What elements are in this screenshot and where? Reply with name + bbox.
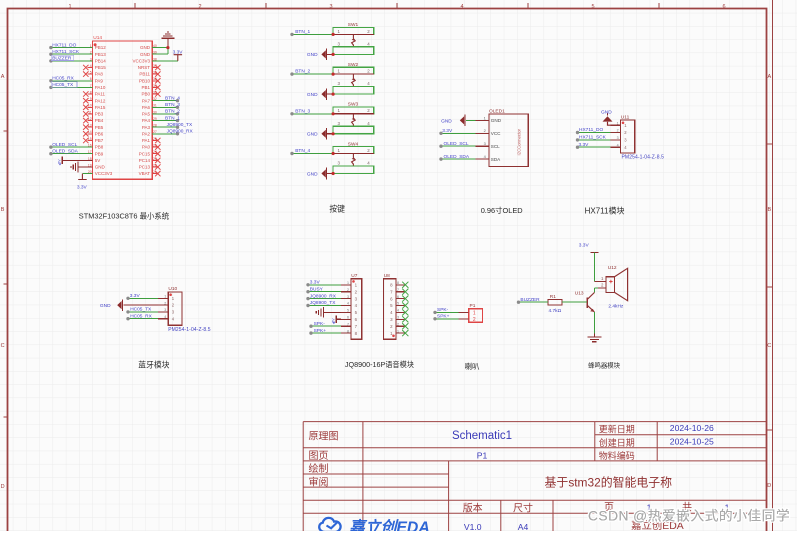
svg-text:绘制: 绘制 [309, 462, 329, 475]
svg-text:BTN_4: BTN_4 [295, 148, 310, 154]
svg-text:4: 4 [347, 302, 349, 306]
svg-text:HX711_SCK: HX711_SCK [579, 135, 607, 141]
svg-text:P1: P1 [477, 450, 488, 460]
no-connect X at U14 pin 11 (PB3) [83, 111, 92, 116]
svg-text:VCC: VCC [491, 131, 501, 136]
svg-text:GND: GND [100, 303, 111, 309]
wire net BTN_2 to SW2 pin 1 [290, 69, 334, 76]
svg-text:Schematic1: Schematic1 [452, 430, 512, 442]
switch SW2 [333, 62, 374, 94]
wire net SPK+ to P1 pin 2 [433, 314, 458, 321]
svg-text:HX711_DO: HX711_DO [579, 127, 603, 133]
title block left labels [309, 430, 339, 488]
svg-text:8: 8 [347, 329, 349, 333]
power flag 5V at U14 pin 18 [58, 157, 93, 166]
svg-text:PB13: PB13 [95, 52, 107, 57]
connector OLED1 I2CConnector [489, 108, 528, 166]
power 3.3V bar at U14 pin 20 [77, 174, 93, 191]
power flag 5V (rotated) at U7 pin 6 [331, 316, 340, 325]
no-connect X at U14 pin 5 (PA8) [83, 71, 92, 76]
svg-text:HX711_SCK: HX711_SCK [52, 49, 80, 55]
svg-text:PB15: PB15 [95, 65, 107, 70]
connector U8 (JQ8900 right) [384, 273, 397, 339]
svg-text:D: D [1, 484, 5, 490]
svg-text:JQ8900_TX: JQ8900_TX [167, 122, 193, 128]
wire net BTN_4 from U14 pin 32 [152, 95, 180, 102]
wire net BUZZER to U14 pin 3 [49, 55, 92, 62]
title block right labels [599, 424, 635, 461]
svg-text:OLED_SCL: OLED_SCL [52, 142, 77, 148]
svg-text:8: 8 [397, 281, 399, 285]
svg-text:PA5: PA5 [142, 112, 151, 117]
svg-text:HX711_DO: HX711_DO [52, 42, 76, 48]
svg-text:蜂鸣器模块: 蜂鸣器模块 [588, 360, 621, 369]
svg-text:BUSY: BUSY [310, 286, 324, 292]
svg-text:3: 3 [329, 4, 332, 10]
svg-text:VBAT: VBAT [139, 171, 151, 176]
svg-text:SDA: SDA [491, 157, 501, 162]
U11 pin stubs and numbers [611, 121, 628, 149]
wire U14 GND pins 40,39 to ground [152, 38, 169, 54]
svg-text:3.3V: 3.3V [130, 293, 141, 299]
svg-text:B: B [1, 207, 5, 213]
svg-text:U10: U10 [168, 286, 177, 292]
svg-text:4.7kΩ: 4.7kΩ [549, 308, 562, 314]
svg-text:C: C [767, 343, 771, 349]
U8 pin 8 stub + X [396, 284, 404, 286]
svg-text:OLED_SDA: OLED_SDA [52, 148, 78, 154]
U14 pin names and numbers [88, 44, 157, 176]
no-connect X at U14 pin 34 (PB1) [152, 85, 160, 90]
switch SW1 [333, 22, 374, 54]
logo 嘉立创EDA cloud icon [319, 518, 340, 532]
svg-text:PB7: PB7 [95, 138, 104, 143]
svg-text:PB14: PB14 [95, 59, 107, 64]
svg-text:U7: U7 [351, 273, 357, 279]
resistor R1 4.7kΩ [548, 294, 562, 314]
svg-text:PB5: PB5 [95, 125, 104, 130]
svg-text:5: 5 [591, 4, 594, 10]
svg-text:HC05_TX: HC05_TX [130, 307, 152, 313]
wire net BTN_4 to SW4 pin 1 [290, 148, 334, 155]
svg-text:0.96寸OLED: 0.96寸OLED [481, 206, 523, 215]
svg-text:PA2: PA2 [142, 131, 151, 136]
ground flag GND at OLED1 pin 1 [441, 115, 475, 127]
svg-text:1: 1 [484, 115, 486, 120]
IC U14 STM32F103C8T6 [93, 35, 153, 179]
svg-text:PA8: PA8 [95, 72, 104, 77]
svg-text:7: 7 [347, 322, 349, 326]
svg-text:1: 1 [397, 329, 399, 333]
svg-text:BTN_1: BTN_1 [295, 29, 310, 35]
svg-text:PB8: PB8 [95, 145, 104, 150]
wire net JQ8900_TX from U14 pin 28 [152, 122, 193, 129]
svg-text:HC05_TX: HC05_TX [52, 82, 74, 88]
svg-text:BUZZER: BUZZER [520, 297, 540, 303]
svg-text:GND: GND [307, 52, 318, 58]
svg-text:SPK+: SPK+ [314, 328, 327, 334]
svg-text:4: 4 [397, 309, 399, 313]
svg-text:3.3V: 3.3V [310, 280, 321, 286]
no-connect X at U14 pin 24 (PC15) [152, 151, 160, 156]
svg-text:PM254-1-04-Z-8.5: PM254-1-04-Z-8.5 [168, 327, 211, 333]
svg-text:PC13: PC13 [139, 165, 151, 170]
svg-text:尺寸: 尺寸 [513, 501, 533, 514]
ground flag GND at U11 pin 1 [601, 109, 613, 125]
svg-text:创建日期: 创建日期 [599, 437, 635, 448]
svg-text:3: 3 [347, 295, 349, 299]
wire net BTN_3 to SW3 pin 1 [290, 108, 334, 115]
svg-text:6: 6 [722, 4, 725, 10]
svg-text:1: 1 [473, 311, 476, 317]
svg-text:5V: 5V [58, 159, 62, 164]
wire net 3.3V to U7 pin 1 [306, 280, 341, 287]
U8 pin stubs, numbers and no-connect X marks [390, 281, 408, 336]
no-connect X at U14 pin 13 (PB5) [83, 125, 92, 130]
ground flag GND at U10 pin 2 [100, 299, 158, 311]
svg-text:P1: P1 [470, 303, 476, 309]
wire U13 emitter to ground [593, 312, 595, 334]
svg-text:2: 2 [617, 129, 619, 133]
wire net HX711_SCK to U11 pin 3 [576, 135, 611, 142]
svg-text:审阅: 审阅 [309, 475, 329, 488]
svg-text:2.4kHz: 2.4kHz [608, 303, 624, 309]
connector P1 (speaker) [469, 303, 483, 322]
svg-text:4: 4 [617, 143, 619, 147]
no-connect X at U14 pin 37 (NRST) [152, 65, 160, 70]
title block bottom row labels [463, 501, 730, 514]
svg-text:C: C [1, 343, 5, 349]
wire net OLED_SCL to U14 pin 16 [49, 142, 92, 149]
title block bottom row values [464, 519, 684, 532]
svg-text:U12: U12 [608, 265, 617, 271]
wire net 3.3V to OLED1 pin 2 [439, 128, 475, 135]
svg-text:PA10: PA10 [95, 85, 106, 90]
svg-text:PA15: PA15 [95, 105, 106, 110]
wire net BTN_3 from U14 pin 31 [152, 102, 180, 109]
svg-text:JQ8900_RX: JQ8900_RX [167, 129, 194, 135]
svg-text:蓝牙模块: 蓝牙模块 [138, 359, 169, 369]
svg-text:2: 2 [397, 322, 399, 326]
ground (earth) at U14 pin 19 [71, 162, 93, 173]
svg-text:5: 5 [347, 309, 349, 313]
U10 pin stubs and numbers [158, 295, 175, 322]
svg-text:PM254-1-04-Z-8.5: PM254-1-04-Z-8.5 [622, 155, 665, 161]
svg-text:HC05_RX: HC05_RX [52, 76, 74, 82]
svg-text:A: A [1, 74, 5, 80]
svg-text:GND: GND [95, 165, 106, 170]
no-connect X at U14 pin 4 (PB15) [83, 65, 92, 70]
svg-text:U13: U13 [575, 291, 584, 297]
svg-text:2: 2 [473, 317, 476, 323]
svg-text:PA7: PA7 [142, 98, 151, 103]
svg-text:2024-10-25: 2024-10-25 [670, 436, 714, 446]
svg-text:BUZZER: BUZZER [52, 56, 72, 62]
svg-text:3.3V: 3.3V [442, 128, 453, 134]
svg-text:图页: 图页 [309, 450, 329, 462]
wire net 3.3V to U10 pin 1 [126, 293, 158, 300]
svg-text:CSDN @热爱嵌入式的小佳同学: CSDN @热爱嵌入式的小佳同学 [588, 508, 790, 523]
svg-text:HX711模块: HX711模块 [585, 206, 625, 216]
no-connect X at U14 pin 22 (PC13) [152, 164, 160, 169]
wire net BUZZER to R1 [517, 297, 548, 304]
svg-text:BTN_1: BTN_1 [165, 115, 180, 121]
svg-text:1: 1 [68, 4, 71, 10]
wire net OLED_SDA to OLED1 pin 4 [439, 154, 475, 161]
switch SW3 [333, 102, 374, 134]
power 3.3V flag above buzzer [579, 243, 599, 253]
connector U10 PM254-1-04-Z-8.5 (bluetooth) [168, 286, 211, 333]
ground flag GND at SW1 [307, 49, 335, 61]
U8 pin 4 stub + X [396, 311, 404, 313]
svg-text:2: 2 [198, 4, 201, 10]
svg-text:PC14: PC14 [139, 158, 151, 163]
wire net HX711_SCK to U14 pin 2 [49, 49, 92, 56]
svg-text:PB3: PB3 [95, 112, 104, 117]
svg-text:OLED_SDA: OLED_SDA [444, 154, 470, 160]
wire net OLED_SCL to OLED1 pin 3 [439, 141, 475, 148]
svg-text:PB9: PB9 [95, 151, 104, 156]
svg-text:PB12: PB12 [95, 45, 107, 50]
svg-text:PA12: PA12 [95, 98, 106, 103]
svg-text:JQ8900-16P语音模块: JQ8900-16P语音模块 [345, 360, 414, 369]
title block grid lines [303, 422, 766, 531]
svg-text:GND: GND [140, 52, 151, 57]
svg-text:JQ8900_TX: JQ8900_TX [310, 300, 336, 306]
svg-text:7: 7 [397, 288, 399, 292]
P1 pin stubs and numbers [459, 311, 476, 323]
svg-text:PA6: PA6 [142, 105, 151, 110]
svg-text:3.3V: 3.3V [579, 142, 590, 148]
wire net HC05_TX to U10 pin 3 [126, 307, 158, 314]
svg-text:PB0: PB0 [141, 92, 150, 97]
no-connect X at U14 pin 14 (PB6) [83, 131, 92, 136]
svg-text:D: D [767, 483, 771, 489]
svg-text:PA4: PA4 [142, 118, 151, 123]
svg-text:PA11: PA11 [95, 92, 106, 97]
svg-text:6: 6 [347, 316, 349, 320]
svg-text:BTN_2: BTN_2 [295, 69, 310, 75]
wire net HC05_RX to U14 pin 6 [49, 76, 92, 83]
svg-text:PA1: PA1 [142, 138, 151, 143]
U8 pin 2 stub + X [396, 325, 404, 327]
svg-text:R1: R1 [550, 294, 556, 300]
svg-text:BTN_2: BTN_2 [165, 109, 180, 115]
svg-text:GND: GND [441, 118, 452, 124]
svg-text:U11: U11 [621, 114, 630, 120]
svg-text:BTN_3: BTN_3 [295, 108, 310, 114]
U8 pin 7 stub + X [396, 291, 404, 293]
transistor U13 (NPN) [575, 291, 595, 312]
U8 pin 5 stub + X [396, 305, 404, 307]
svg-text:2024-10-26: 2024-10-26 [670, 423, 714, 433]
no-connect X at U14 pin 23 (PC14) [152, 158, 160, 163]
svg-text:原理图: 原理图 [309, 430, 339, 442]
power 3.3V at U14 pin 38 [152, 49, 183, 61]
svg-text:BTN_4: BTN_4 [165, 95, 180, 101]
svg-text:U8: U8 [384, 273, 390, 279]
no-connect X at U14 pin 25 (PA0) [152, 144, 160, 149]
svg-text:3.3V: 3.3V [77, 185, 88, 191]
wire net OLED_SDA to U14 pin 17 [49, 148, 92, 155]
svg-text:PA0: PA0 [142, 145, 151, 150]
svg-text:2: 2 [347, 288, 349, 292]
wire net SPK- to P1 pin 1 [433, 307, 458, 314]
svg-text:3: 3 [397, 316, 399, 320]
svg-text:PB10: PB10 [139, 78, 151, 83]
wire net BTN_1 to SW1 pin 1 [290, 29, 334, 36]
U7 pin stubs and numbers [341, 281, 358, 336]
svg-text:VCC3V3: VCC3V3 [132, 59, 150, 64]
svg-text:STM32F103C8T6 最小系统: STM32F103C8T6 最小系统 [79, 212, 170, 221]
svg-text:SPK-: SPK- [314, 321, 326, 327]
no-connect X at U14 pin 12 (PB4) [83, 118, 92, 123]
wire net SPK+ to U7 pin 8 [309, 328, 341, 335]
no-connect X at U14 pin 35 (PB10) [152, 78, 160, 83]
no-connect X at U14 pin 21 (VBAT) [152, 171, 160, 176]
no-connect X at U14 pin 36 (PB11) [152, 71, 160, 76]
svg-text:PC15: PC15 [139, 151, 151, 156]
svg-text:GND: GND [601, 109, 612, 115]
wire net JQ8900_RX to U7 pin 3 [306, 293, 341, 300]
wire net JQ8900_TX to U7 pin 4 [306, 300, 341, 307]
svg-text:BTN_3: BTN_3 [165, 102, 180, 108]
svg-text:5V: 5V [95, 158, 101, 163]
U8 pin 6 stub + X [396, 298, 404, 300]
svg-text:VCC3V3: VCC3V3 [95, 171, 113, 176]
svg-text:GND: GND [491, 118, 502, 123]
svg-text:PB1: PB1 [141, 85, 150, 90]
svg-text:1: 1 [617, 121, 619, 125]
ground flag GND at SW3 [307, 128, 335, 140]
no-connect X at U14 pin 8 (PA11) [83, 91, 92, 96]
svg-text:SPK-: SPK- [437, 307, 449, 313]
svg-text:PB6: PB6 [95, 131, 104, 136]
svg-text:嘉立创EDA: 嘉立创EDA [348, 519, 430, 532]
svg-text:物料编码: 物料编码 [599, 450, 635, 461]
ground (earth) below U13 [587, 334, 601, 342]
svg-text:A: A [767, 74, 771, 80]
svg-text:A4: A4 [518, 522, 529, 531]
wire net SPK- to U7 pin 7 [309, 321, 341, 328]
svg-text:I2CConnector: I2CConnector [517, 128, 522, 155]
ground flag GND at SW4 [307, 168, 335, 180]
ground flag GND at SW2 [307, 88, 335, 100]
svg-text:1: 1 [347, 281, 349, 285]
svg-text:3.3V: 3.3V [579, 243, 590, 249]
svg-text:4: 4 [164, 315, 166, 319]
svg-text:V1.0: V1.0 [464, 522, 482, 531]
wire net HC05_TX to U14 pin 7 [49, 82, 92, 89]
svg-text:NRST: NRST [138, 65, 151, 70]
svg-text:6: 6 [397, 295, 399, 299]
svg-text:JQ8900_RX: JQ8900_RX [310, 293, 337, 299]
switch SW4 [333, 141, 374, 173]
svg-text:GND: GND [140, 45, 151, 50]
title block dates [670, 423, 714, 446]
svg-text:PB11: PB11 [139, 72, 150, 77]
svg-text:3: 3 [164, 308, 166, 312]
svg-text:HC05_RX: HC05_RX [130, 313, 152, 319]
svg-text:PB4: PB4 [95, 118, 104, 123]
ground symbol top-right of U14 [161, 32, 174, 38]
wire net HX711_DO to U11 pin 2 [576, 127, 611, 134]
ground (earth, rotated) at U7 pin 5 [316, 307, 341, 318]
U8 pin 1 stub + X [396, 332, 404, 334]
no-connect X at U14 pin 15 (PB7) [83, 138, 92, 143]
svg-text:5: 5 [397, 302, 399, 306]
svg-text:喇叭: 喇叭 [465, 361, 480, 371]
connector U7 (JQ8900 left) [351, 273, 362, 339]
svg-text:PA9: PA9 [95, 78, 104, 83]
svg-text:基于stm32的智能电子称: 基于stm32的智能电子称 [545, 475, 673, 489]
no-connect X at U14 pin 10 (PA15) [83, 105, 92, 110]
svg-text:SPK+: SPK+ [437, 314, 450, 320]
svg-text:GND: GND [307, 132, 318, 138]
wire net BUSY to U7 pin 2 [306, 286, 341, 293]
svg-text:OLED_SCL: OLED_SCL [444, 141, 469, 147]
wire R1 to U13 base [562, 301, 587, 303]
wire net BTN_1 from U14 pin 29 [152, 115, 180, 122]
svg-text:PA3: PA3 [142, 125, 151, 130]
U8 pin 3 stub + X [396, 318, 404, 320]
connector U11 PM254-1-04-Z-8.5 (HX711) [621, 114, 664, 160]
svg-text:1: 1 [164, 295, 166, 299]
no-connect X at U14 pin 33 (PB0) [152, 91, 160, 96]
no-connect X at U14 pin 9 (PA12) [83, 98, 92, 103]
svg-text:按键: 按键 [329, 203, 345, 213]
wire net BTN_2 from U14 pin 30 [152, 109, 180, 116]
wire buzzer pin 2 to U13 collector [594, 288, 598, 293]
svg-text:3: 3 [484, 141, 486, 146]
svg-text:SCL: SCL [491, 144, 500, 149]
OLED1 pin names and numbers [475, 115, 501, 162]
svg-text:更新日期: 更新日期 [599, 424, 635, 435]
svg-text:U14: U14 [93, 35, 102, 41]
svg-text:版本: 版本 [463, 501, 483, 514]
svg-text:3: 3 [617, 136, 619, 140]
svg-text:GND: GND [307, 171, 318, 177]
svg-text:GND: GND [307, 92, 318, 98]
svg-text:4: 4 [460, 4, 463, 10]
no-connect X at U14 pin 26 (PA1) [152, 138, 160, 143]
svg-text:2: 2 [164, 301, 166, 305]
wire net JQ8900_RX from U14 pin 27 [152, 129, 193, 136]
wire 3.3V to buzzer U12 pin 1 [593, 253, 595, 282]
svg-text:2: 2 [484, 128, 486, 133]
svg-text:5V: 5V [331, 318, 335, 323]
svg-text:3.3V: 3.3V [173, 49, 184, 55]
svg-text:OLED1: OLED1 [489, 108, 505, 114]
svg-text:B: B [767, 207, 771, 213]
wire net 3.3V to U11 pin 4 [576, 142, 611, 149]
wire net HX711_DO to U14 pin 1 [49, 42, 92, 49]
wire net HC05_RX to U10 pin 4 [126, 313, 158, 320]
buzzer U12 2.4kHz [594, 265, 627, 309]
